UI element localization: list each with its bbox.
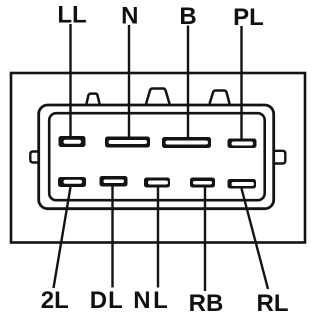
svg-text:RL: RL [257,290,289,317]
key bump 2 [146,89,170,105]
pin B [162,137,211,148]
leader line B [187,26,189,139]
svg-text:DL: DL [90,287,124,314]
svg-text:PL: PL [233,4,264,31]
svg-text:2L: 2L [41,287,69,314]
right side tab [274,151,286,164]
svg-text:LL: LL [57,2,86,29]
pin DL [100,176,128,187]
leader line RL [242,189,269,290]
connector body inner outline [49,113,265,200]
key bump 1 [86,94,99,105]
leader line DL [111,187,113,288]
pin NL [144,178,170,188]
svg-text:RB: RB [189,290,224,317]
pin PL [228,139,257,149]
leader line RB [204,188,206,292]
connector housing outer rectangle [11,73,305,243]
svg-text:B: B [179,3,196,30]
connector body outer outline [39,105,274,209]
leader line NL [157,188,159,288]
pin N [105,137,150,148]
svg-text:NL: NL [133,287,170,314]
leader line LL [69,24,71,137]
leader line N [128,25,130,138]
leader line PL [240,26,242,140]
left side tab [30,152,38,163]
pin LL [59,136,86,147]
leader line 2L [54,187,71,288]
pin RL [228,179,257,189]
svg-text:N: N [121,3,138,30]
pin RB [190,178,215,188]
pin 2L [58,177,86,187]
key bump 3 [210,91,230,105]
